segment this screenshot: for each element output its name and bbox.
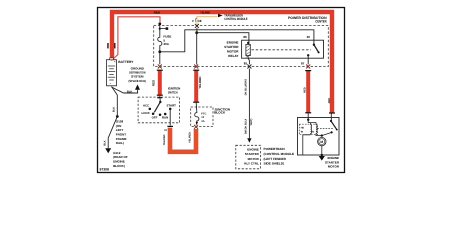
svg-text:F: F <box>192 19 194 23</box>
node JB fuse bottom <box>196 122 198 124</box>
svg-text:STARTER: STARTER <box>224 45 239 49</box>
svg-text:40A: 40A <box>163 42 169 46</box>
wire battery feed: fuse out to upper bus to relay 30 <box>160 30 314 52</box>
relay switch contact 87 <box>307 54 309 56</box>
wire fuse out down <box>159 47 161 65</box>
svg-text:YEL/RED: YEL/RED <box>163 134 166 145</box>
wire thick red battery feed main <box>112 12 332 113</box>
svg-text:RED: RED <box>152 79 156 86</box>
svg-text:BLOCK): BLOCK) <box>113 164 125 168</box>
svg-text:WHT): WHT) <box>250 118 253 125</box>
switch position dots <box>149 108 152 111</box>
svg-text:MOTOR: MOTOR <box>227 50 239 54</box>
connector X junction block leg <box>194 125 198 129</box>
node fuse top <box>158 23 161 26</box>
svg-text:STARTER: STARTER <box>245 152 260 156</box>
wire main feed into starter box <box>330 114 332 122</box>
arrow to transmission control module <box>218 14 223 18</box>
wire into starter box <box>307 114 309 120</box>
wire G108 to G112 ground <box>108 117 117 149</box>
wire start net lower bus to relay 86 <box>197 33 249 45</box>
starter solenoid dashed box <box>299 124 317 135</box>
arrow up to ground distribution <box>135 84 140 89</box>
svg-text:3A: 3A <box>201 120 204 123</box>
svg-text:BLOCK: BLOCK <box>214 111 226 115</box>
svg-text:97308: 97308 <box>100 168 110 172</box>
svg-text:RED: RED <box>328 98 331 104</box>
svg-text:RUN: RUN <box>162 116 168 120</box>
svg-text:C8: C8 <box>198 19 202 23</box>
svg-text:BATTERY: BATTERY <box>118 60 134 64</box>
svg-text:RAIL): RAIL) <box>116 141 124 145</box>
svg-text:DK BLU/ORG: DK BLU/ORG <box>245 79 248 95</box>
svg-text:ACC: ACC <box>143 104 150 108</box>
ignition switch dashed box <box>138 97 179 123</box>
node start net junction <box>195 31 198 34</box>
wire dk blu to PCM <box>248 69 250 139</box>
solenoid switch lower contact <box>331 131 333 133</box>
motor M <box>318 137 326 145</box>
connector X 85 <box>247 65 251 69</box>
svg-text:YEL/RED: YEL/RED <box>200 10 211 14</box>
motor to ground <box>321 146 323 155</box>
svg-text:CONTROL MODULE: CONTROL MODULE <box>224 17 248 21</box>
svg-text:RED: RED <box>154 10 161 14</box>
svg-text:87: 87 <box>301 62 305 66</box>
wire JB fuse top to thick band <box>195 103 198 112</box>
svg-text:(SPLICE E311): (SPLICE E311) <box>129 79 147 83</box>
solenoid winding feed <box>308 120 316 125</box>
wire thin red into fuse 5 <box>159 24 161 36</box>
svg-text:START: START <box>167 104 177 108</box>
power distribution center dashed box <box>154 25 329 66</box>
ignition switch pivot node <box>159 101 161 103</box>
fuse F5 symbol <box>158 36 162 46</box>
relay switch contact 30 <box>313 44 315 46</box>
ground arrow G112 <box>105 148 111 153</box>
svg-text:(LEFT FENDER: (LEFT FENDER <box>264 157 287 161</box>
svg-text:CENTER: CENTER <box>315 19 327 23</box>
svg-text:(CONTROL MODULE: (CONTROL MODULE <box>264 152 295 156</box>
wire from START down <box>169 109 171 126</box>
svg-text:IN: IN <box>301 131 304 134</box>
svg-text:BLK: BLK <box>113 107 116 112</box>
arrow into PCM <box>247 138 251 143</box>
wire thick orange U start to junction block <box>170 128 196 152</box>
svg-text:POWERTRAIN: POWERTRAIN <box>264 147 286 151</box>
wire thin red battery to fuse <box>112 17 161 61</box>
connector X start wire <box>194 65 198 69</box>
node fuse output <box>158 50 161 53</box>
node motor junction <box>321 134 323 136</box>
svg-text:+: + <box>114 60 116 64</box>
svg-text:BLK: BLK <box>103 140 106 145</box>
switch arm to LOCK <box>154 102 160 112</box>
connector X ignition feed left <box>158 65 162 69</box>
svg-text:(W/ DK BLU/: (W/ DK BLU/ <box>245 119 248 135</box>
svg-text:FTC: FTC <box>201 113 206 116</box>
relay coil <box>246 44 250 55</box>
svg-text:ENGINE: ENGINE <box>227 40 239 44</box>
svg-text:MOTOR: MOTOR <box>248 157 260 161</box>
wire yellow to TCM <box>197 17 218 25</box>
starter motor box <box>298 118 340 156</box>
node G108 <box>116 115 119 118</box>
wire thin from dot to X <box>196 33 198 65</box>
svg-text:YEL/RED: YEL/RED <box>189 132 192 143</box>
svg-text:RELAY: RELAY <box>228 54 239 58</box>
wire C8 down to start net dot <box>196 28 198 33</box>
solenoid linkage dashed <box>317 127 333 129</box>
pull-in coil to motor junction <box>316 134 322 135</box>
svg-text:30: 30 <box>307 35 311 39</box>
wire thick red YEL/RED start wire above JB <box>194 70 198 102</box>
svg-text:SWITCH: SWITCH <box>168 91 178 95</box>
svg-text:ENGINE: ENGINE <box>247 148 259 152</box>
battery <box>107 60 117 86</box>
svg-text:85: 85 <box>244 62 248 66</box>
relay 85 output to PCM <box>248 58 249 64</box>
wire battery minus down to G108 <box>112 87 118 117</box>
junction block fuse symbol <box>195 112 199 122</box>
solenoid switch contact <box>330 120 332 122</box>
connector X 87 <box>306 65 310 69</box>
node solenoid entry <box>307 119 309 121</box>
svg-text:RLY CTRL: RLY CTRL <box>244 161 259 165</box>
hold-in coil to case ground <box>303 135 311 155</box>
wire JB leg thin <box>195 122 198 125</box>
svg-text:M: M <box>320 140 323 144</box>
relay linkage dashed <box>252 49 312 51</box>
powertrain control module dashed box <box>236 145 261 169</box>
node stub <box>159 28 161 30</box>
stub with square terminal <box>160 28 166 30</box>
wire battery minus to splice <box>112 87 138 93</box>
relay switch arm <box>314 45 319 53</box>
connector X at C8 <box>195 24 199 28</box>
svg-text:YEL/RED: YEL/RED <box>198 76 202 88</box>
border frame <box>98 8 345 173</box>
svg-text:86: 86 <box>243 35 247 39</box>
solenoid coil HD <box>311 125 312 135</box>
svg-text:RED: RED <box>304 87 307 93</box>
wire thick red to starter solenoid <box>306 70 310 113</box>
svg-text:IN: IN <box>312 131 315 134</box>
svg-text:MOTOR: MOTOR <box>328 165 340 169</box>
solenoid coil PL <box>316 125 317 134</box>
svg-text:LOCK: LOCK <box>142 111 151 115</box>
svg-text:BLK: BLK <box>127 90 133 94</box>
wire into switch pivot <box>159 96 162 102</box>
svg-text:HD: HD <box>301 126 305 129</box>
relay box engine starter motor relay <box>242 40 324 58</box>
junction block dashed box <box>191 107 213 126</box>
svg-text:SIDE SHIELD): SIDE SHIELD) <box>264 162 284 166</box>
label RED rotated battery wires <box>107 43 109 48</box>
ground arrow under starter box <box>319 156 325 161</box>
svg-text:OFF: OFF <box>152 116 158 120</box>
solenoid switch arm <box>331 121 337 130</box>
wire thick red to ignition switch <box>158 70 162 96</box>
